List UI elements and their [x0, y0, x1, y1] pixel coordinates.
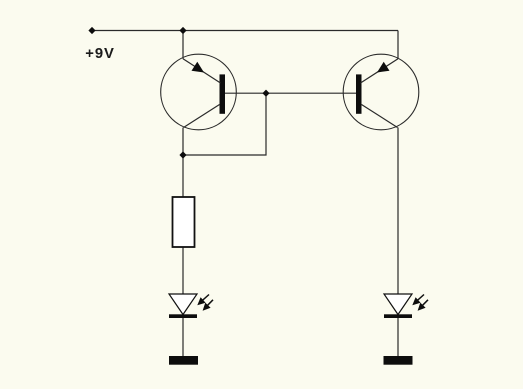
- ground (right): [384, 356, 413, 365]
- wire +9V power rail: [92, 30, 398, 32]
- wire feedback node A to base bus: [183, 93, 266, 155]
- wire Q2 collector to LED D2: [397, 128, 399, 295]
- wire resistor R1 to LED D1: [182, 247, 184, 295]
- ground (left): [169, 356, 198, 365]
- LED D1 (left): [169, 294, 213, 318]
- node junction rail / left branch: [179, 27, 186, 34]
- wire left branch from rail to Q1 emitter: [182, 31, 184, 59]
- wire right branch from rail down to Q2 emitter: [397, 31, 399, 59]
- node A junction collector / feedback / resistor: [179, 151, 186, 158]
- resistor R1: [173, 197, 195, 247]
- wire LED D1 cathode to ground: [182, 317, 184, 357]
- LED D2 (right): [384, 294, 428, 318]
- transistor Q1 (PNP, left): [161, 54, 237, 130]
- node +9V supply terminal: [88, 27, 95, 34]
- wire base bus Q1 base to Q2 base: [225, 92, 356, 94]
- svg-text:+9V: +9V: [85, 46, 114, 62]
- wire LED D2 cathode to ground: [397, 317, 399, 357]
- transistor Q2 (PNP, right): [343, 54, 419, 130]
- wire Q1 collector to node A: [182, 128, 184, 156]
- node junction base bus / feedback: [262, 90, 269, 97]
- wire node A to resistor R1: [182, 155, 184, 197]
